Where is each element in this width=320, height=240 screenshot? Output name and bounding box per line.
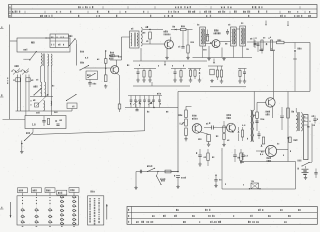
- parts table row 2 text: [152, 215, 153, 217]
- label LB3: [242, 125, 243, 126]
- wire S4A drop 1: [16, 75, 18, 112]
- detector labels: [255, 37, 258, 39]
- label OA5: [298, 48, 299, 50]
- ground C23: [215, 184, 217, 186]
- oscillator box L2: [86, 71, 98, 80]
- label 7W: [252, 180, 253, 182]
- resistor R25: [241, 130, 243, 137]
- bandswitch diode d2: [151, 102, 153, 104]
- left stem ground: [135, 172, 137, 188]
- title table row 3 text: [40, 15, 41, 17]
- speaker cap C18: [314, 116, 316, 119]
- resistor R9 in box: [47, 119, 49, 125]
- diode D5 OA5 branch: [294, 43, 296, 50]
- wire R4 to node: [105, 63, 107, 75]
- rotation arrow left: [10, 202, 12, 218]
- trimmer C4 node dot: [105, 50, 106, 51]
- AGC resistor R18: [149, 69, 151, 71]
- detector labels above: [249, 38, 252, 39]
- switch lever at L8: [66, 100, 67, 101]
- resistor R13: [206, 36, 208, 41]
- AGC resistor R19: [180, 69, 182, 71]
- AF input wire: [136, 171, 178, 173]
- wire TR2 emitter down: [117, 73, 120, 76]
- sub-box text row 1: [51, 36, 52, 38]
- in-box label 82: [59, 120, 62, 121]
- wire S4A drop 3: [25, 75, 27, 116]
- resistor R7 vertical: [118, 104, 121, 109]
- bandswitch contact 6: [153, 96, 155, 100]
- bottom bus audio: [240, 161, 296, 163]
- AGC cap C14: [137, 69, 139, 72]
- bandswitch contact 5: [148, 96, 150, 100]
- tiny marks below bus: [30, 100, 33, 101]
- label C23: [219, 179, 220, 181]
- wire T3 bottom stub: [232, 46, 234, 58]
- resistor R30 preamp: [256, 112, 259, 118]
- PA cluster diode D6: [261, 145, 263, 147]
- rotation arrow right: [106, 204, 108, 220]
- resistor R16 AGC 120: [277, 41, 285, 44]
- T7 core lines: [297, 112, 299, 131]
- PA cluster resistor R26: [262, 137, 264, 144]
- bandswitch levers: [133, 101, 139, 106]
- label block TR5: [266, 111, 267, 113]
- bandswitch contact 3: [139, 96, 141, 100]
- ground volume: [185, 136, 187, 138]
- wire right drop: [121, 37, 123, 60]
- ground battery: [305, 175, 307, 177]
- AGC row bus 2: [171, 68, 186, 70]
- small coil Lq: [51, 101, 52, 106]
- volume resistor R22: [185, 110, 188, 118]
- wire IF bottom bus: [133, 60, 207, 62]
- wafer S4B detail box: [88, 196, 104, 225]
- wire TR3 collector: [170, 37, 172, 41]
- wire switch to battery: [305, 166, 307, 169]
- wire T1 bottom drop: [140, 48, 142, 61]
- resistor R11 horizontal: [181, 28, 187, 30]
- wire IF bottom bus 2: [193, 57, 253, 59]
- label SW1 cluster: [157, 93, 158, 95]
- resistor R8 small: [16, 78, 20, 82]
- tuning arrow: [36, 94, 49, 106]
- wire long feedback to AF: [33, 131, 145, 135]
- resistor R6 with label: [111, 55, 115, 57]
- label block TR8: [267, 157, 268, 159]
- AGC group D box resistor: [210, 69, 214, 75]
- bias chain x224: [223, 121, 225, 126]
- wire TR5 emitter: [272, 107, 274, 118]
- node dot x288: [287, 137, 288, 138]
- top tick marker: [265, 21, 267, 25]
- switch wafer label box S3A: [31, 188, 41, 193]
- label 47 box: [306, 126, 309, 128]
- sub-box text row 2: [51, 44, 52, 46]
- wafer S4B text columns: [89, 198, 91, 199]
- switch contacts column 1: [22, 197, 23, 198]
- IF transformer T2: [200, 27, 206, 46]
- branch switch S2B: [157, 171, 158, 172]
- decouple pair 1 resistor: [207, 153, 209, 161]
- input cap C21: [139, 170, 141, 174]
- fuse box on y189: [251, 183, 259, 189]
- AGC group E cap: [244, 69, 246, 72]
- AGC group D resistor 3: [221, 66, 223, 70]
- coil L9 secondary: [141, 28, 142, 47]
- label SW1: [80, 51, 81, 53]
- wire TR4 ground drop: [208, 46, 210, 58]
- S4A lever: [13, 69, 20, 75]
- battery cap C20: [315, 169, 317, 173]
- IF transformer T4: [240, 26, 246, 46]
- bus hanging cap: [136, 108, 138, 110]
- AGC group E grounds: [239, 80, 241, 82]
- cluster tiny labels: [129, 103, 132, 105]
- padding coil Lp: [44, 101, 45, 111]
- capacitor C7 in box: [42, 120, 45, 122]
- misc value labels: [96, 59, 99, 60]
- sub-box lead: [46, 37, 50, 39]
- bandswitch cluster wires: [128, 95, 162, 97]
- oscillator box 1.8: [25, 116, 66, 129]
- label block TR6: [192, 115, 193, 117]
- switch wafer label box SW2: [57, 190, 67, 195]
- label B52: [110, 52, 111, 54]
- capacitor C11: [207, 30, 209, 35]
- T7 lead top: [295, 108, 297, 112]
- wire T3 ground drop: [221, 48, 223, 58]
- AGC resistor R17: [143, 69, 145, 71]
- tick node T: [164, 61, 166, 65]
- wire S4A drop 4: [28, 75, 30, 112]
- wire R30 down: [256, 118, 258, 131]
- label 17: [146, 26, 147, 28]
- capacitor C12: [227, 29, 229, 31]
- diode branch bar: [293, 58, 297, 60]
- ground x224: [223, 140, 225, 144]
- drop x222: [221, 148, 223, 189]
- wire antenna to box: [10, 40, 17, 42]
- antenna transformer coil: [41, 54, 42, 67]
- label S45: [69, 35, 70, 37]
- transistor TR2: [111, 66, 119, 74]
- bandswitch contact 2: [135, 96, 137, 100]
- grounds AGC row 2: [174, 79, 176, 81]
- title table row 2 mid marks: [108, 11, 109, 13]
- battery switch S4B3: [301, 165, 302, 166]
- resistor R12 vertical: [187, 30, 189, 46]
- switch wafer label box S4B: [18, 188, 28, 193]
- label 1.5 pair2: [245, 155, 246, 157]
- right small rail: [311, 124, 313, 163]
- TR6 emitter resistor R24: [200, 132, 209, 135]
- parts table row 1 text: [176, 209, 177, 211]
- svg-text:1.8: 1.8: [32, 124, 36, 127]
- resistor R4 vertical: [104, 59, 107, 64]
- switch contacts column 3: [49, 197, 50, 198]
- small box L8: [67, 103, 77, 109]
- AGC group C wire: [188, 68, 201, 70]
- bandswitch diode d1: [139, 102, 141, 104]
- bandswitch contact 1: [130, 96, 132, 100]
- label block TR2: [109, 55, 110, 57]
- AVC bus: [30, 95, 53, 97]
- wire TR2 collector up: [116, 60, 118, 67]
- parts table row digits: [128, 209, 129, 211]
- wire T4 bottom stub: [242, 46, 244, 58]
- grounds AGC row 1: [137, 79, 139, 81]
- right rail vertical: [309, 43, 311, 92]
- parts table bottom frame: [127, 207, 317, 225]
- sheet edge marker a: [0, 28, 4, 30]
- mid ecap C23: [215, 175, 216, 176]
- T7 secondary: [301, 113, 302, 132]
- transistor TR4: [212, 40, 220, 48]
- antenna transformer secondary: [48, 54, 49, 66]
- wire left stub: [3, 118, 26, 120]
- wire osc box down: [89, 80, 91, 83]
- wire TR4 base from T2: [206, 43, 212, 45]
- preamp chain x257: [256, 102, 258, 112]
- wire detector to rail: [273, 51, 275, 92]
- AGC group E resistor 1: [239, 69, 241, 71]
- wire TR5 collector up: [273, 92, 275, 99]
- input cap C31: [242, 152, 244, 155]
- coupling ecap C17: [204, 127, 212, 129]
- top tick 2: [287, 21, 289, 25]
- detector resistor R14: [261, 40, 263, 51]
- sub-box divider: [55, 34, 57, 48]
- label block TR3: [164, 31, 165, 33]
- dot on y189 left: [249, 188, 250, 189]
- wire T3 to T4 top: [236, 28, 240, 30]
- switch in osc box: [87, 77, 88, 78]
- switch S4A contacts right: [21, 70, 29, 73]
- cap C30 preamp: [255, 120, 258, 122]
- wire coil feeds: [40, 66, 42, 82]
- resistor R21 20k: [289, 137, 291, 143]
- label block TR7: [227, 114, 228, 116]
- resistor R below bus: [35, 103, 39, 107]
- wire AM bus horizontal: [16, 110, 73, 112]
- label 100: [261, 118, 262, 120]
- label 1uF: [240, 161, 241, 163]
- svg-text:M8: M8: [31, 41, 35, 45]
- bus node dot: [153, 107, 154, 108]
- switch wafer label box SW1: [69, 188, 79, 193]
- label 47 right: [292, 111, 293, 113]
- ground pair1: [199, 163, 201, 165]
- wafer box stems: [22, 193, 24, 196]
- switch contacts column 5: [72, 196, 75, 198]
- resistor R5 vertical: [104, 75, 107, 82]
- tall screen box: [304, 115, 308, 160]
- resistor R10: [149, 32, 152, 39]
- series resistor R27: [165, 170, 171, 173]
- input switch S2A: [147, 171, 148, 172]
- feedback drop x296: [295, 162, 297, 190]
- detector diode D4: [266, 43, 268, 45]
- node dot R10: [149, 29, 150, 30]
- mixer sub-box: [50, 34, 69, 48]
- switch S4B mid lever: [33, 94, 34, 95]
- switch S4B lower lever: [24, 140, 25, 141]
- transistor TR5: [266, 98, 275, 107]
- wire trimmer: [105, 51, 107, 59]
- label S4B top: [24, 49, 25, 51]
- wire R7 to bus: [119, 109, 121, 112]
- wire C7: [43, 116, 45, 121]
- decouple pair 2 resistor: [240, 153, 242, 161]
- wire AGC to right rail: [284, 42, 310, 44]
- title table top frame: [9, 5, 318, 18]
- wire T6 top leads: [253, 92, 255, 111]
- tall box inner marks: [303, 116, 306, 118]
- AGC lower stub: [151, 82, 153, 86]
- detector cluster cap C13: [257, 42, 259, 52]
- dot on y189 right: [259, 188, 260, 189]
- label S4B bottom: [298, 160, 299, 162]
- switch contacts column 4: [60, 196, 63, 198]
- volume pot VR1: [185, 119, 188, 126]
- detector resistor R15: [270, 40, 272, 51]
- wire IF top bus: [143, 29, 163, 31]
- title table row 1 ticks: [102, 6, 104, 8]
- AGC group C diode: [199, 69, 201, 72]
- bandswitch contact 7: [159, 96, 161, 100]
- volume chain top: [185, 106, 187, 110]
- title table row 2 ticks: [24, 11, 26, 13]
- transistor TR6: [192, 124, 202, 134]
- ground left bottom: [21, 150, 23, 152]
- node dot TR2 base feed: [105, 68, 106, 69]
- label S4A: [15, 65, 16, 67]
- title table row 2 text: [12, 11, 13, 13]
- wire S45 down: [76, 44, 78, 66]
- antenna transformer core: [43, 54, 45, 67]
- label A1: [173, 26, 174, 28]
- AGC lower wire: [133, 85, 190, 87]
- decouple pair 1 ecap: [199, 149, 201, 155]
- diode D2 in box: [55, 120, 57, 122]
- node tick D: [213, 59, 215, 63]
- electrolytic C5: [88, 82, 91, 84]
- switch S1A lever: [79, 69, 80, 70]
- transistor TR7 driver: [227, 123, 236, 132]
- junction dot x178: [177, 171, 179, 173]
- AF left rail: [177, 92, 179, 172]
- label S4B detail: [91, 191, 92, 193]
- IF transformer T1: [130, 31, 139, 48]
- bottom long wire y189: [222, 188, 296, 190]
- wire stub to T1: [122, 36, 130, 38]
- AGC group D grounds: [211, 79, 213, 81]
- capacitor C8 in box: [56, 123, 59, 125]
- AGC row bus 1: [134, 68, 156, 70]
- AGC group D wire: [208, 65, 223, 67]
- wire feedback rise: [144, 108, 146, 132]
- wire R10 to base: [149, 39, 151, 44]
- tuning coil L5: [45, 82, 46, 96]
- decoupling cap C16: [281, 107, 283, 115]
- AGC group C resistor 2: [194, 69, 196, 71]
- AF bus hang parts: [135, 104, 137, 108]
- wire rail to ground: [177, 178, 179, 187]
- label LS: [312, 116, 313, 117]
- label SW1f: [147, 165, 148, 167]
- wire lever link: [23, 58, 30, 60]
- ground under R5: [105, 84, 107, 86]
- wire base feed: [84, 67, 111, 69]
- FM tuner box U1: [17, 38, 70, 52]
- wire TR8 base: [256, 150, 265, 152]
- wire chain to rail: [171, 171, 178, 173]
- diode D3: [171, 29, 181, 31]
- switch S45: [69, 45, 70, 46]
- sheet edge marker b: [0, 96, 4, 98]
- switch unit columns: [22, 197, 24, 224]
- label Q6: [261, 151, 262, 153]
- ground R12: [187, 53, 189, 57]
- label S2B: [161, 180, 162, 182]
- wire secondary drops: [47, 66, 49, 96]
- vertical label 4uF: [6, 77, 9, 79]
- switch unit main box: [17, 196, 79, 225]
- driver transformer T6: [251, 110, 252, 142]
- output transformer T7 coil: [296, 112, 297, 131]
- AGC group C resistor 1: [190, 69, 192, 71]
- driver rail x288: [287, 92, 289, 162]
- title table row 3 mid marks: [78, 15, 79, 17]
- wire TR8 collector right: [277, 149, 288, 151]
- tuning coil L4: [41, 82, 42, 96]
- antenna transformer winding 2: [51, 54, 52, 66]
- ground rail: [177, 185, 179, 187]
- volume resistor R23: [185, 128, 188, 136]
- decouple pair 2 ecap: [234, 149, 236, 155]
- switch S4A contacts left: [12, 70, 20, 73]
- wire OA5 to rail: [294, 59, 296, 91]
- wire S4A drop 2: [20, 75, 22, 112]
- label LB2: [313, 124, 314, 126]
- AGC group D resistor 2: [217, 66, 219, 70]
- transistor TR3: [165, 40, 174, 49]
- wire TR4 collector to T3: [220, 41, 231, 43]
- ground TR3 emitter: [166, 49, 168, 57]
- switch contacts column 2: [36, 197, 37, 198]
- marks below switch box: [22, 226, 24, 227]
- wire L8 drop: [71, 109, 73, 112]
- PA cluster cap C19: [258, 131, 260, 134]
- wire TR5 base left: [257, 101, 266, 103]
- sheet edge marker c: [0, 208, 4, 210]
- wire after R11: [186, 29, 193, 31]
- wire to ground: [21, 141, 23, 151]
- parts table row 3 text: [136, 221, 137, 223]
- label S42: [87, 74, 88, 76]
- label block TR4: [214, 29, 215, 31]
- bandswitch contact 4: [144, 96, 146, 100]
- AGC group E wire: [238, 68, 247, 70]
- thermistor branch: [238, 127, 240, 130]
- AGC cap C15: [174, 69, 176, 72]
- detector extra grounds: [261, 48, 263, 51]
- tall box ticks: [304, 117, 308, 119]
- volume labels: [179, 114, 180, 116]
- title table row index digits: [9, 6, 10, 8]
- AGC group C grounds: [190, 79, 192, 81]
